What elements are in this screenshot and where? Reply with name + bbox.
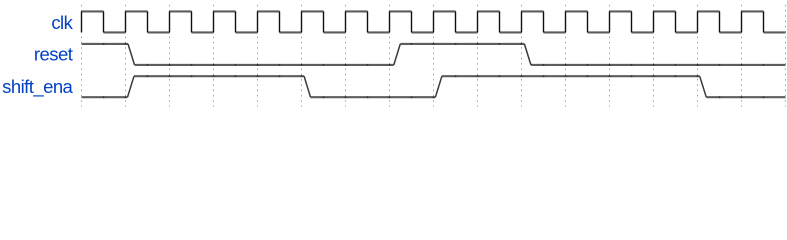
svg-text:reset: reset — [34, 44, 73, 65]
svg-text:shift_ena: shift_ena — [2, 76, 73, 98]
svg-text:clk: clk — [51, 12, 73, 33]
